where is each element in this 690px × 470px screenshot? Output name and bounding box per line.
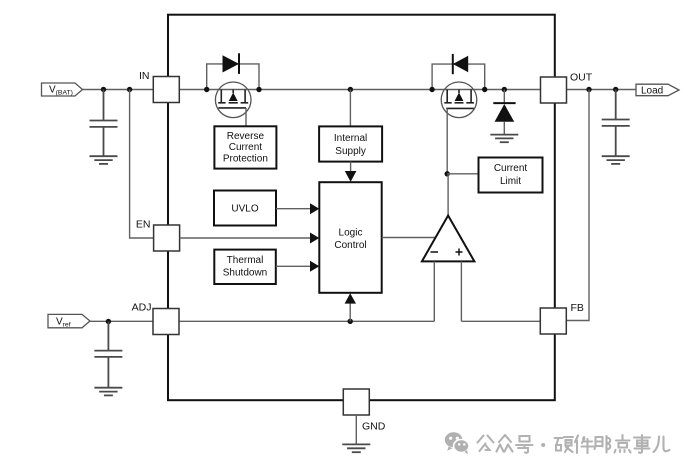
block: UVLO [214, 191, 276, 226]
node: internal supply tap [348, 87, 353, 92]
block: Reverse Current Protection [214, 126, 276, 168]
block: Current Limit [479, 158, 543, 193]
node: OUT/schottky junction [502, 87, 507, 92]
node: VBAT/CIN junction [101, 87, 106, 92]
svg-text:Supply: Supply [335, 146, 366, 157]
svg-text:Control: Control [334, 240, 366, 251]
svg-text:Protection: Protection [223, 154, 268, 165]
flag V(BAT) [42, 83, 83, 96]
node: Q1 drain [256, 87, 261, 92]
watermark wechat icon [445, 432, 469, 454]
wire: ADJ up into Logic Control [349, 300, 351, 321]
wire: non-inverting input down to FB line [460, 261, 462, 321]
wire: VBAT rail to IN pin [83, 89, 154, 91]
wire: GND pin to ground [355, 415, 357, 444]
wire: feedback sense from OUT to FB [566, 90, 589, 321]
svg-text:Load: Load [641, 85, 663, 96]
pin box ADJ [153, 309, 179, 335]
svg-text:Logic: Logic [339, 227, 363, 238]
wire: main rail IN to OUT [179, 89, 540, 91]
pin box FB [540, 308, 566, 334]
wire: comparator output up to gate node [447, 174, 449, 216]
ground: under GND pin [342, 444, 370, 452]
pin box EN [154, 225, 180, 251]
flag Vref [48, 314, 90, 327]
diode D1 (body diode of Q1) [223, 55, 240, 72]
node: Q1 source [204, 87, 209, 92]
node: OUT/FB sense junction [586, 87, 591, 92]
ground: under C-ADJ [94, 388, 122, 396]
node: Q2 gate / comparator output junction [445, 171, 450, 176]
pin box GND [343, 389, 369, 415]
wire: inverting input down to ADJ line [433, 261, 435, 321]
flag Load [636, 84, 679, 96]
wire: Logic Control output to comparator [382, 237, 437, 239]
wire: EN to Logic Control [180, 237, 311, 239]
node: VBAT/EN junction [127, 87, 132, 92]
wire: body-diode loop Q2 [432, 64, 485, 89]
wire: rail to Internal Supply [349, 90, 351, 127]
IC boundary rectangle [168, 15, 555, 401]
svg-text:Current: Current [229, 142, 263, 153]
wire: body-diode loop Q1 [207, 64, 259, 90]
svg-text:EN: EN [136, 219, 151, 231]
capacitor C-OUT [602, 90, 630, 157]
wire: Internal Supply to Logic Control [350, 162, 352, 172]
ground: under D3 [490, 135, 518, 143]
wire: Thermal Shutdown to Logic Control [276, 265, 311, 267]
wire: UVLO to Logic Control [276, 208, 311, 210]
op-amp U1 (error comparator) [422, 216, 475, 262]
node: Vref/cap junction [106, 319, 111, 324]
svg-text:Current: Current [494, 163, 528, 174]
ground: under C-OUT [602, 156, 630, 164]
ground: under C-IN [90, 156, 118, 164]
wire: FB line to comparator [461, 320, 540, 322]
node: ADJ / logic junction [348, 319, 353, 324]
block: Logic Control [319, 182, 381, 293]
watermark text 公众号 · 硬件那点事儿 [478, 435, 670, 453]
capacitor C-IN [90, 90, 118, 157]
wire: Q1 gate to Reverse Current Protection [245, 108, 247, 126]
wire: ADJ line [179, 320, 434, 322]
svg-text:Shutdown: Shutdown [223, 268, 267, 279]
capacitor C-ADJ [94, 322, 122, 388]
node: Q2 source [482, 87, 487, 92]
diode D2 (body diode of Q2) [453, 56, 468, 73]
pin box OUT [541, 77, 567, 103]
transistor Q2 (pass PMOS) [441, 82, 477, 118]
svg-text:OUT: OUT [570, 72, 593, 84]
node: OUT/COUT junction [613, 87, 618, 92]
wire: EN drop from VBAT rail [130, 90, 154, 239]
svg-text:FB: FB [571, 302, 584, 314]
svg-text:GND: GND [362, 421, 386, 433]
svg-text:IN: IN [139, 70, 150, 82]
svg-text:Thermal: Thermal [227, 255, 264, 266]
diode D3 (output clamp to ground) [503, 90, 505, 104]
svg-text:Reverse: Reverse [227, 131, 265, 142]
svg-text:ADJ: ADJ [132, 302, 152, 314]
wire: Q2 gate down to current-limit node [446, 108, 448, 173]
block: Internal Supply [319, 126, 382, 161]
node: Q2 drain [429, 87, 434, 92]
wire: to Current Limit [447, 173, 478, 175]
block: Thermal Shutdown [214, 250, 275, 284]
svg-text:Limit: Limit [500, 176, 521, 187]
pin box IN [153, 77, 179, 103]
svg-text:Internal: Internal [334, 133, 367, 144]
transistor Q1 (reverse-blocking PMOS) [215, 82, 251, 118]
svg-text:UVLO: UVLO [231, 204, 258, 215]
wire: Vref to ADJ pin [90, 320, 153, 322]
wire: OUT to Load [567, 89, 637, 91]
